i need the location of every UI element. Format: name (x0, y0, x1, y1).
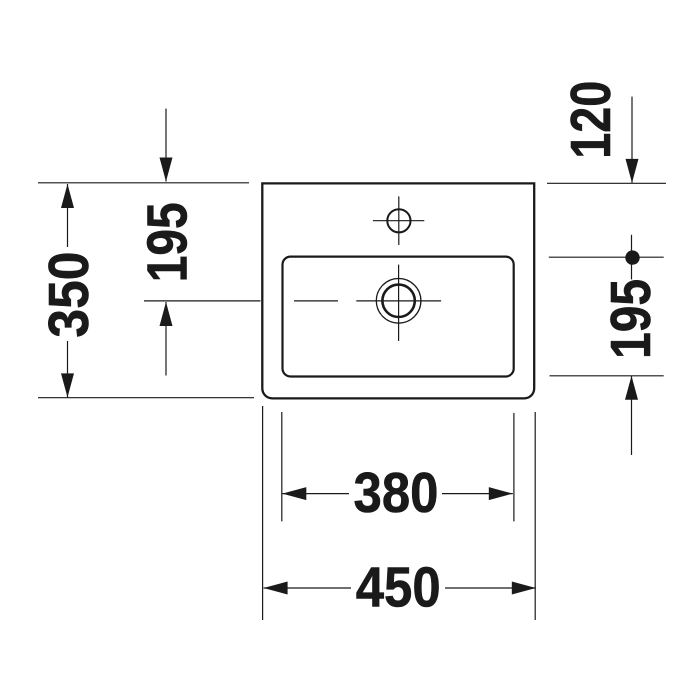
svg-text:120: 120 (559, 81, 623, 159)
svg-text:380: 380 (354, 461, 439, 525)
svg-text:195: 195 (136, 202, 200, 282)
svg-text:450: 450 (356, 556, 441, 620)
svg-text:195: 195 (599, 279, 663, 359)
svg-text:350: 350 (37, 252, 101, 338)
